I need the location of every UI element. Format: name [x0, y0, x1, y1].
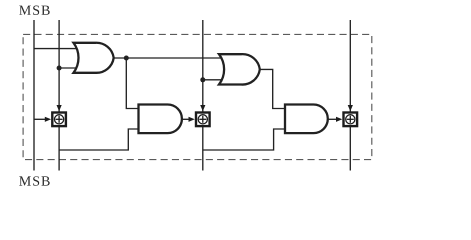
arrow into box3 top [348, 105, 353, 111]
arrow into box1 top [57, 105, 62, 111]
arrow into box2 left [189, 117, 195, 122]
wire box1 output to AND1 bottom input [59, 129, 144, 150]
xor-box B1 [52, 113, 66, 127]
register boundary dashed box [23, 34, 372, 159]
wire L1 to box1 input [34, 118, 46, 120]
bit line L4 [349, 20, 351, 171]
junction dot OR2 bottom tap [200, 77, 205, 82]
wire L3 to OR2 bottom input [203, 79, 226, 81]
arrow into box1 left [45, 117, 51, 122]
label MSB bottom [19, 176, 49, 185]
or-gate OR2 [219, 54, 260, 84]
label MSB top [19, 6, 49, 15]
wire OR1 output to OR2 top input [114, 57, 227, 59]
junction dot OR1 bottom tap [57, 66, 62, 71]
xor-box B3 [344, 113, 358, 127]
bit line L2 [58, 20, 60, 171]
junction dot OR1 output node [124, 56, 129, 61]
or-gate OR1 [74, 43, 114, 73]
bit line L1 (MSB) [33, 20, 35, 171]
xor-box B2 [196, 113, 210, 127]
wire box2 output to AND2 bottom input [203, 129, 290, 150]
wire OR2 output to AND2 top input [260, 69, 291, 108]
arrow into box3 left [336, 117, 342, 122]
and-gate AND1 [139, 105, 182, 134]
bit line L3 [202, 20, 204, 171]
wire L1 to OR1 top input [34, 48, 80, 50]
arrow into box2 top [200, 105, 205, 111]
wire AND2 output to box3 [327, 118, 337, 120]
and-gate AND2 [285, 105, 328, 134]
wire L2 to OR1 bottom input [59, 67, 80, 69]
wire AND1 output to box2 [181, 118, 189, 120]
wire node to AND1 top input [126, 58, 144, 109]
